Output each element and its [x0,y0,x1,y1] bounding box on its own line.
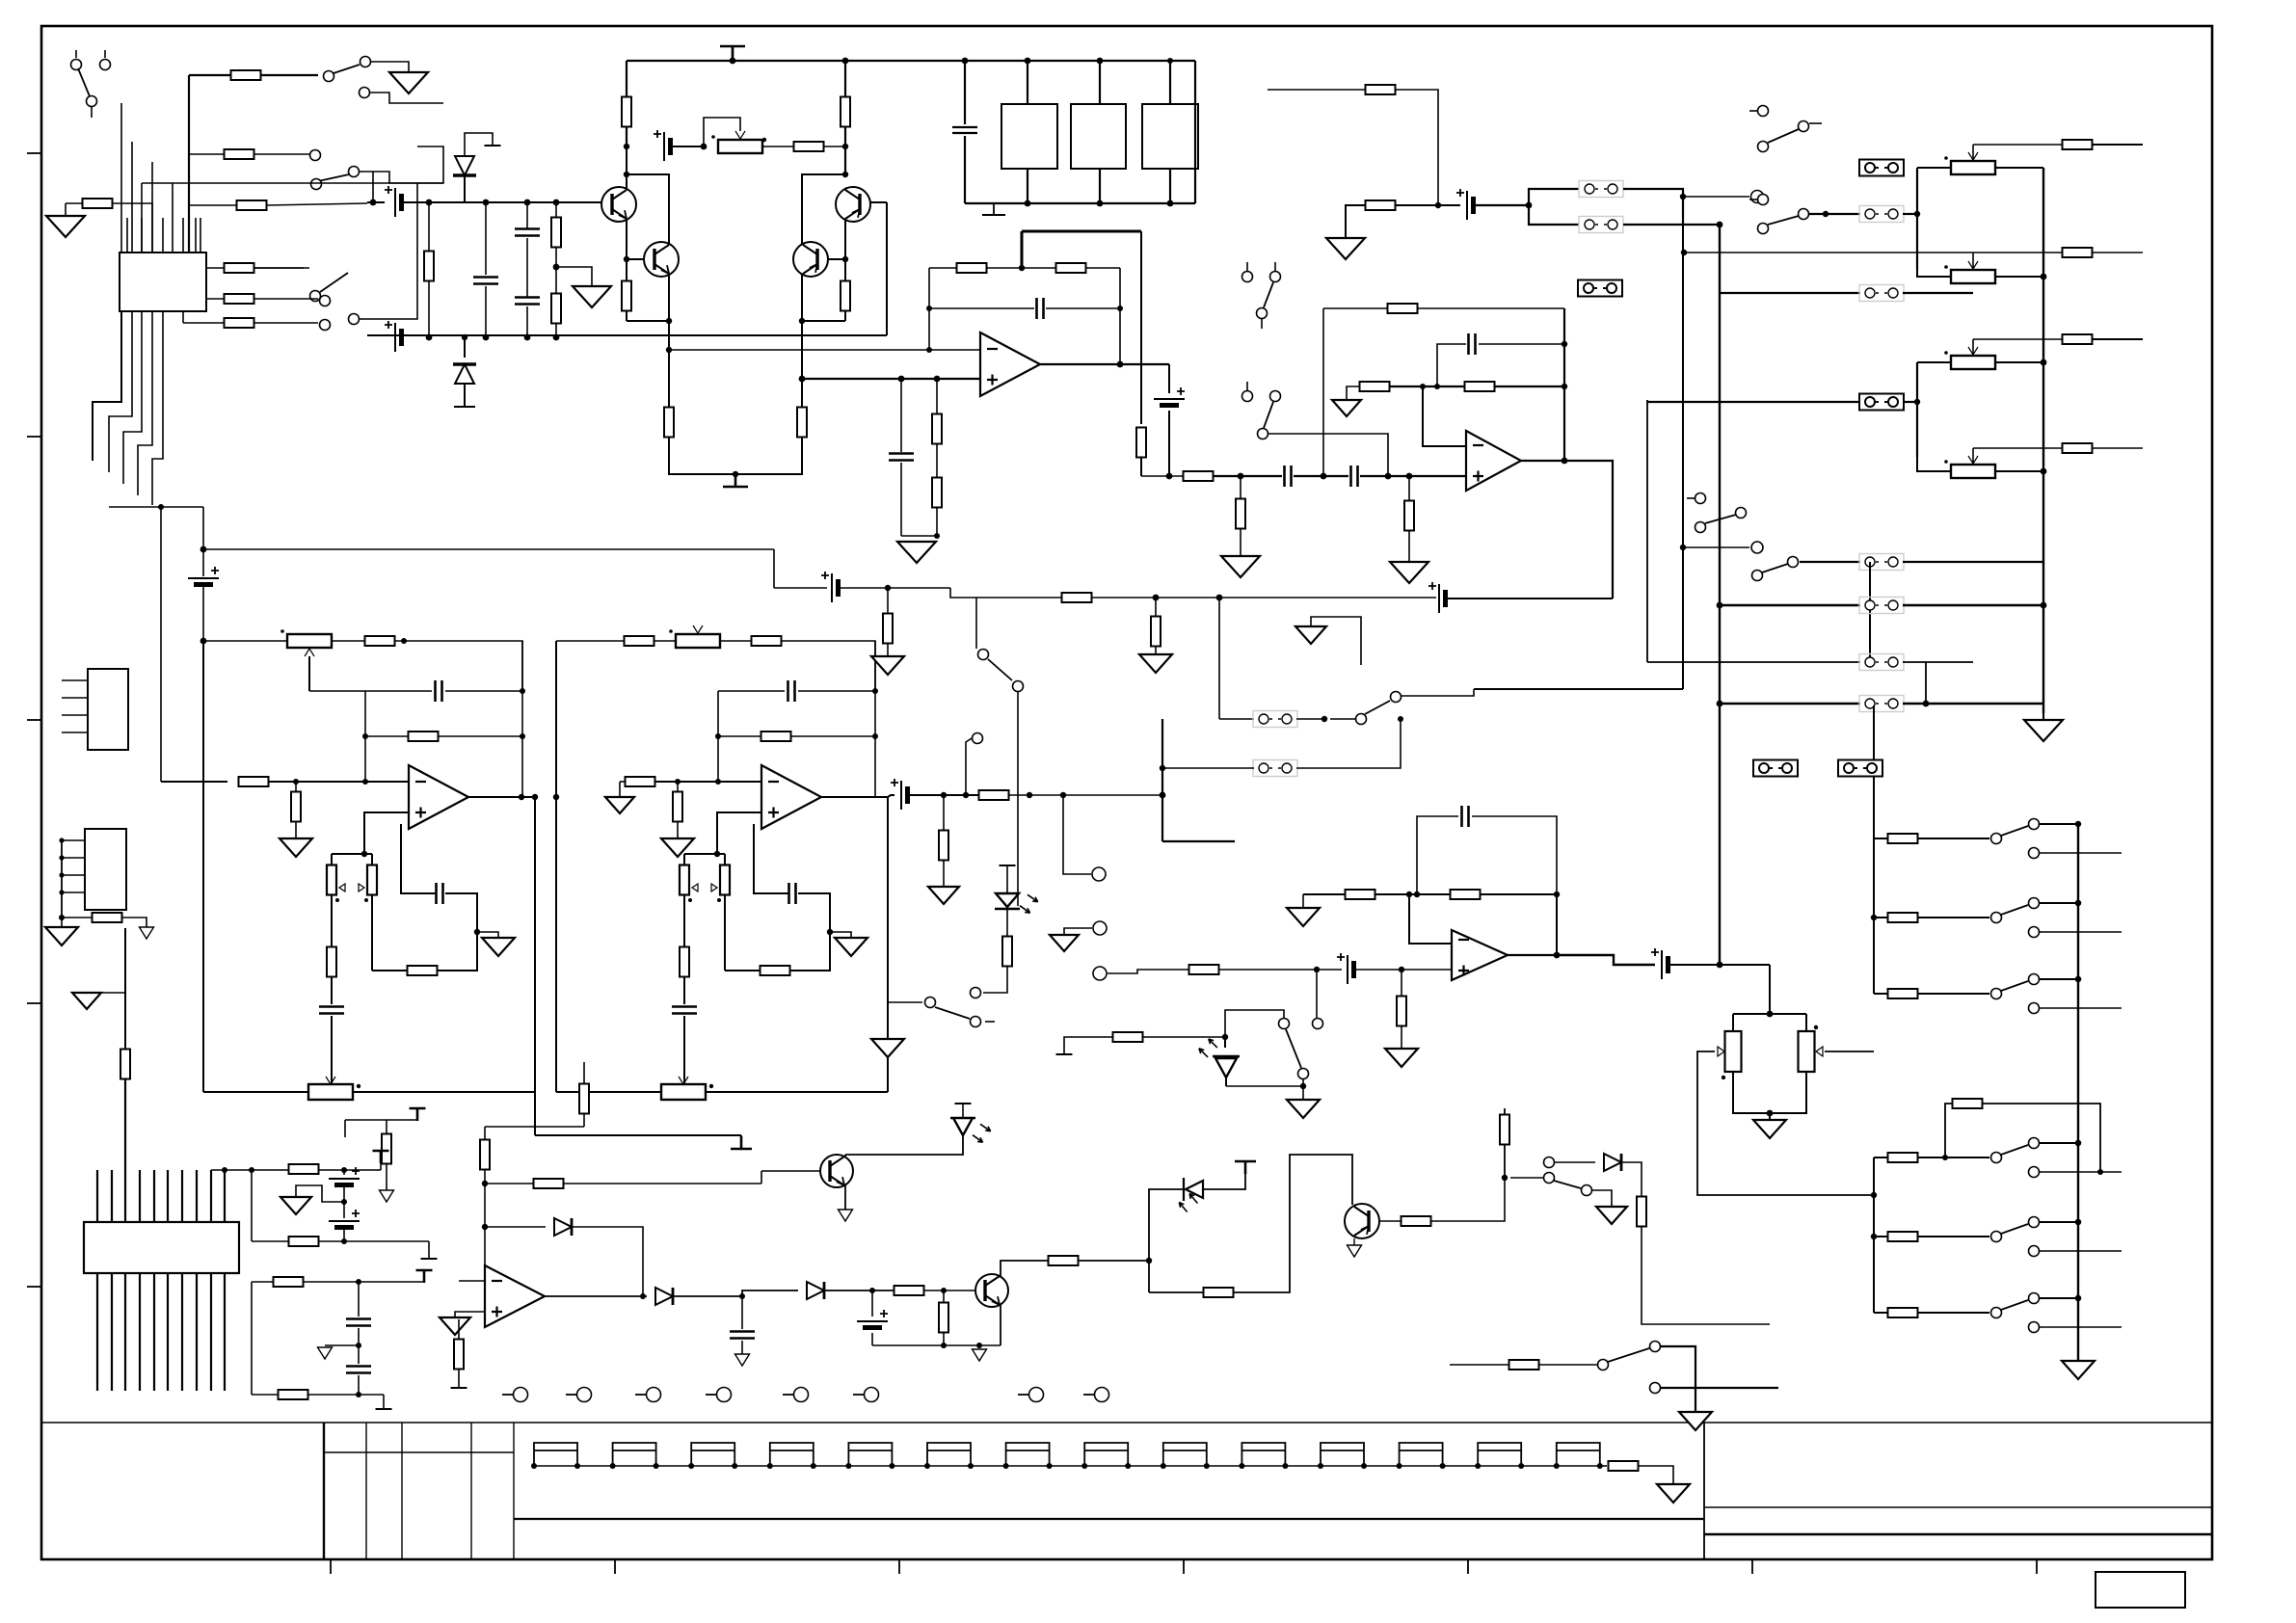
wire [445,893,477,904]
polarized capacitor C22 [857,1320,888,1322]
resistor R61 [534,1179,564,1188]
wire [372,172,374,202]
diode D5 [554,1218,572,1236]
power bar [410,1108,426,1121]
ground [871,1039,904,1057]
input bus wire [188,75,190,253]
wire [358,1282,360,1317]
wire [372,970,408,971]
wire [741,1296,743,1329]
wire [626,221,627,243]
switch S2 blade [334,65,360,73]
junction [200,546,207,553]
capacitor C33 [437,883,443,904]
switch S7 blade [1768,216,1799,225]
wire [1395,204,1460,206]
wire [325,1344,359,1346]
wire [1409,894,1452,944]
resistor R17b [883,614,893,644]
junction [730,58,736,65]
wire [1408,476,1410,501]
resistor R15 [664,408,674,438]
wire [669,437,802,474]
terminal [973,733,983,744]
connector P1 pin 2 [62,697,88,699]
switch S6 pole [1758,142,1769,152]
polarized capacitor C16 [188,577,219,579]
potentiometer RV11 [1799,1031,1815,1072]
switch blade [2001,1224,2028,1234]
wire [401,824,436,893]
switch S13 contact [1544,1173,1555,1184]
IC U10 pin [151,162,153,253]
wire [626,310,627,321]
wire [364,691,366,782]
ground [735,1354,750,1366]
V+ rail [627,60,1170,62]
resistor R90 [1609,1461,1639,1471]
junction [1216,595,1223,601]
capacitor C9 [889,454,914,461]
wire [445,690,522,692]
stub [1687,497,1695,499]
switch S3 pole [311,179,322,190]
resistor R35 [2063,334,2093,344]
junction [1161,1463,1166,1469]
junction [640,1293,646,1299]
junction [249,1167,254,1173]
potentiometer RV3 [1951,270,1995,283]
resistor R4 [225,263,254,273]
wiper wire [1972,253,1974,269]
junction [1942,1155,1948,1160]
terminal stub [783,1394,793,1396]
wire [1360,475,1466,477]
wire [1769,965,1771,1014]
wire [1917,457,1951,471]
ground [1221,556,1260,577]
wire [1233,1155,1352,1292]
resistor R48 [680,947,689,977]
junction [654,1463,659,1469]
wire [724,854,726,865]
wire [802,320,845,322]
ground [280,838,312,857]
junction [1434,384,1440,389]
polarized capacitor C1 [663,132,665,161]
resistor R9 [237,200,267,210]
signal bus wire [203,548,774,550]
resistor R45 [673,792,682,822]
wire [754,824,788,893]
RV32 wiper arrow [305,649,314,656]
potentiometer RV31 [308,1084,353,1100]
switch S12 pole [971,1017,981,1027]
wire [910,794,979,796]
wire [141,183,143,253]
trimmer RV1 [718,140,762,153]
resistor R18 [551,218,561,248]
resistor R31 [1366,85,1396,94]
wire [844,243,846,281]
resistor R29b [1465,382,1495,391]
wire [1769,1113,1771,1120]
junction [1239,1463,1244,1469]
wire [983,966,1007,993]
IC U11 bottom pin 5 [153,1273,155,1391]
wire [383,1395,385,1409]
wire [943,1332,945,1345]
wire [2040,1297,2078,1299]
wire [1474,688,1683,690]
terminal [1751,191,1764,203]
wire [1437,344,1466,386]
wire [1510,1177,1543,1179]
junction [1554,891,1560,897]
IC U11 top pin 10 [224,1170,226,1222]
wire [964,136,966,203]
IC U11 bottom pin 10 [224,1273,226,1391]
junction [1717,962,1723,969]
resistor R33 [409,732,439,741]
junction [1318,1463,1323,1469]
junction [200,638,207,645]
wire [1240,528,1241,556]
junction [962,58,969,65]
resistor R43 [761,732,791,741]
junction [158,504,164,510]
junction [842,172,848,177]
wire [1903,401,1917,403]
resistor R19 [551,294,561,324]
wire [1903,703,2043,705]
wire [464,384,466,407]
resistor R75 [1204,1288,1234,1297]
wire [344,1120,346,1137]
resistor R27 [1388,304,1418,313]
wire [2040,1250,2122,1252]
wire [485,202,487,275]
trimmer tap dot [762,138,766,142]
wire [1395,90,1438,205]
wire [887,1002,889,1039]
wire [370,93,443,103]
switch S7 pole [1758,224,1769,234]
switch S5a pole [1257,308,1268,319]
terminal J4 [717,1388,732,1402]
junction [1160,765,1165,771]
diode D8 [1604,1154,1621,1171]
switch S11 contact [1313,1019,1323,1029]
wire [1296,718,1324,720]
jumper J5 [1859,206,1904,223]
ground [280,1197,311,1214]
switch blade [2001,905,2028,915]
transistor Q5 [975,1274,1008,1307]
wire [1683,196,1749,198]
resistor R53 [1888,1153,1918,1162]
junction [426,334,433,341]
wire [1476,204,1529,206]
junction [1597,1463,1603,1469]
junction [341,1167,347,1173]
junction [1314,967,1320,972]
ground [389,72,428,93]
filter FL2 [1071,104,1126,169]
switch S5 pole [1258,429,1268,439]
resistor R11 [794,142,824,151]
resistor R44 [1113,1032,1143,1042]
wire [2040,1221,2078,1223]
channel 3 box bottom wire [203,1091,308,1093]
capacitor C42 [672,1007,697,1014]
junction [553,264,560,271]
polarized capacitor C20 [1661,950,1663,979]
terminal bar [376,1408,392,1410]
wire [673,146,704,147]
wire [203,640,287,642]
terminal [320,320,331,331]
connector P2 [85,829,126,910]
junction [941,1343,947,1348]
switch contact [2029,898,2040,909]
ground [2062,1361,2095,1379]
junction [362,733,368,739]
junction [1554,1463,1560,1469]
resistor R78 [1637,1197,1646,1227]
wire [416,1108,418,1120]
wire [1564,461,1613,599]
wiper wire [1972,448,1974,464]
wire [183,322,224,324]
op-amp U1 [980,333,1040,396]
wire [1417,307,1564,309]
wire [2040,852,2122,854]
wire [798,893,830,904]
IC U10 pin [162,218,164,253]
junction [1160,792,1166,799]
IC U11 bottom pin 9 [210,1273,212,1391]
wire [331,894,333,947]
junction [1060,792,1066,798]
resistor R42 [1346,890,1375,899]
filter ground bus [965,202,1195,204]
wire [303,1281,424,1283]
switch contact [1991,1232,2002,1242]
wire [1149,1291,1204,1293]
wire [655,781,761,783]
junction [426,200,433,206]
junction [842,58,849,65]
wiper wire [1825,1051,1874,1052]
wire [1140,231,1142,424]
transistor Q1 [601,187,636,222]
IC U11 [84,1222,239,1273]
junction [963,792,969,798]
IC U11 top pin 2 [111,1170,113,1222]
junction [1282,1463,1288,1469]
wire [485,1126,584,1128]
potentiometer RV32 [287,634,332,648]
wire [1219,718,1254,720]
switch S10 pole [1013,681,1024,692]
capacitor C11 [1285,466,1292,487]
junction [2075,1295,2081,1301]
wire [121,918,147,927]
wire [943,795,945,831]
junction [898,376,905,383]
wire [677,782,679,792]
wire [2092,447,2143,449]
junction [474,929,480,935]
wire [464,174,466,202]
wire [1639,1466,1673,1484]
junction [1025,200,1031,207]
terminal stub [853,1394,864,1396]
wire [1408,530,1410,562]
ground [1287,908,1320,926]
wire [1000,1305,1001,1345]
polarized capacitor C24 [329,1220,360,1222]
channel 4 wiper arrows [692,884,717,891]
wire [1099,169,1101,203]
tap dot [717,898,721,902]
wire [423,1270,425,1282]
LED D1 [950,1118,975,1135]
filter FL3 [1142,104,1198,169]
wire [1874,993,1888,995]
wire [673,1295,742,1297]
wire [1296,719,1401,768]
junction [941,1288,947,1293]
wire [1402,689,1474,696]
polarized capacitor C3 [394,323,396,352]
junction [733,471,738,477]
switch S15 contact [1356,714,1367,725]
ground [573,286,611,307]
wire [1472,816,1557,894]
terminal bar [421,1258,438,1260]
resistor R22 [932,414,942,444]
tap dot [688,898,692,902]
wire [888,795,894,797]
ground [1390,562,1428,583]
wire [888,1001,922,1003]
stub [1749,110,1757,112]
wire [1826,213,1860,215]
polarized capacitor C17 [900,781,902,810]
wire [1322,308,1324,476]
wire [789,904,830,971]
wire [464,337,466,358]
junction [1321,473,1327,480]
wire [1733,1072,1806,1113]
junction [2041,468,2047,475]
transistor Q6 [1345,1204,1379,1238]
junction [1146,1258,1152,1264]
switch S9 pole [1752,571,1763,581]
wire [790,735,875,737]
junction [1398,716,1403,722]
ground [1139,654,1172,673]
wire [172,253,174,299]
LED D2 [1184,1178,1203,1201]
switch S4 blade [320,273,348,292]
wiper wire [308,656,310,691]
switch contact [2029,1246,2040,1257]
transistor Q2 [644,242,679,277]
wire [1684,252,2063,253]
junction [1518,1463,1524,1469]
resistor R47 [720,865,730,895]
junction [926,306,932,311]
wire [1903,213,1917,215]
resistor R33 [2063,140,2093,149]
wire [2042,713,2044,720]
switch S3 contact [310,150,321,161]
wire [1563,308,1565,461]
wire [844,1185,846,1210]
wire [1903,661,1973,663]
transistor Q4 [793,242,828,277]
stub [985,1021,995,1023]
wire [607,1295,647,1297]
wire [844,310,846,321]
wire [1646,400,1648,662]
potentiometer RV42 [676,634,720,648]
wire [2092,338,2143,340]
junction [842,144,848,149]
wire [1720,604,1860,606]
bank bus wire [1873,838,1875,994]
wire [1302,894,1304,908]
tap dot [364,898,368,902]
wire [887,643,889,656]
connector P1 pin 3 [62,714,88,716]
junction [362,779,368,785]
wire [871,1290,873,1317]
wire [1006,909,1008,937]
wire [555,323,557,337]
wire [2040,823,2078,825]
IC U10 pin [131,142,133,253]
junction [462,334,467,340]
wire [1732,1014,1734,1031]
resistor R62 [454,1340,464,1370]
IC U11 bottom pin 6 [167,1273,169,1391]
connector P2 pin 1 [62,839,85,841]
terminal J7 [1029,1388,1044,1402]
junction [1167,58,1173,64]
switch S4 contact 2 [349,314,360,325]
wire [1995,276,2043,278]
wire [900,463,902,536]
terminal J5 [794,1388,809,1402]
wire [142,182,443,184]
resistor R70 [289,1164,319,1174]
IC U10 pin wire [109,311,132,472]
wire [1874,838,1888,839]
switch S10 contact [978,650,989,660]
connector P1 [88,669,128,750]
ground [1050,935,1079,951]
tap dot [709,1084,713,1088]
wire [386,1120,387,1134]
tap dot [357,1084,360,1088]
capacitor C26 [346,1367,371,1373]
junction [1019,265,1025,271]
wire [1063,795,1091,874]
